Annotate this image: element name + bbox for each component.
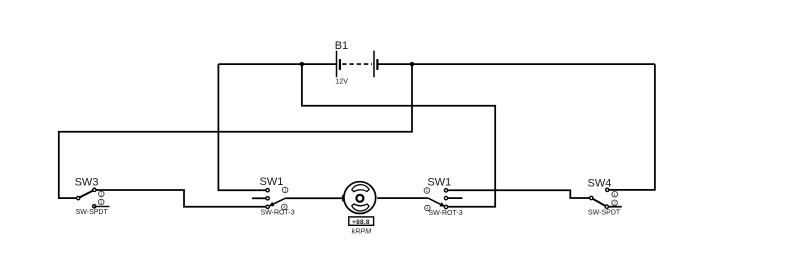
motor left pin tick bbox=[342, 195, 344, 202]
svg-text:SW4: SW4 bbox=[588, 177, 612, 189]
svg-text:+88.8: +88.8 bbox=[352, 219, 370, 226]
SW3 pin number 2 bbox=[98, 199, 104, 205]
SW4 throw1 terminal bbox=[606, 188, 609, 191]
SW1L pin number 1 bbox=[282, 187, 288, 193]
B1 dashed link bbox=[342, 63, 372, 65]
SW3 throw1 terminal bbox=[93, 188, 96, 191]
SW1R pin2 terminal bbox=[444, 196, 447, 199]
switch SW3 (SW-SPDT) bbox=[77, 188, 110, 208]
SW4 lever bbox=[591, 198, 607, 207]
wire rail-left down to SW1 left pin1 bbox=[218, 64, 266, 190]
svg-text:SW-SPDT: SW-SPDT bbox=[588, 209, 621, 216]
motor top brush arc bbox=[352, 185, 369, 192]
wire SW4 throw1 up to rail bbox=[608, 64, 655, 190]
svg-text:SW-SPDT: SW-SPDT bbox=[76, 209, 109, 216]
svg-text:SW3: SW3 bbox=[75, 176, 99, 188]
motor display box bbox=[349, 217, 374, 226]
wire right SW1 pin1 to SW4 common bbox=[446, 190, 590, 198]
SW4 pin number 2 bbox=[612, 200, 618, 206]
SW1L wiper arrowhead bbox=[269, 202, 275, 207]
wire junction B down, left, down to SW3 common bbox=[59, 64, 412, 198]
motor shaft circle bbox=[356, 195, 363, 202]
svg-text:SW1: SW1 bbox=[427, 177, 451, 189]
SW3 pin number 1 bbox=[99, 191, 105, 197]
SW1L pin3 terminal bbox=[266, 205, 269, 208]
SW1R pin number 4 bbox=[425, 205, 431, 211]
node junction B bbox=[410, 62, 414, 66]
wire top rail right (battery right lead) bbox=[377, 63, 655, 65]
B1 left long plate bbox=[336, 51, 338, 77]
node junction A bbox=[300, 62, 304, 66]
SW1R pin3 terminal bbox=[444, 205, 447, 208]
svg-text:SW-ROT-3: SW-ROT-3 bbox=[261, 209, 295, 216]
B1 right short plate bbox=[376, 59, 378, 70]
SW3 throw2 stub bbox=[94, 206, 109, 208]
svg-text:SW1: SW1 bbox=[260, 176, 284, 188]
wire left SW1 common to motor left pin bbox=[285, 197, 343, 199]
SW1L pin number 4 bbox=[282, 204, 288, 210]
wire stub SW4 throw2 bbox=[608, 206, 622, 208]
SW3 lever bbox=[78, 190, 94, 198]
motor bottom brush arc bbox=[352, 204, 369, 211]
svg-text:B1: B1 bbox=[335, 40, 348, 52]
motor body circle bbox=[344, 182, 376, 214]
wire junction A down and across to right SW1 pin3 bbox=[302, 64, 495, 207]
svg-text:SW-ROT-3: SW-ROT-3 bbox=[429, 210, 463, 217]
SW3 throw2 terminal bbox=[93, 205, 96, 208]
SW1R wiper bbox=[428, 198, 444, 206]
SW1L wiper bbox=[270, 198, 285, 205]
SW1L pin2 terminal bbox=[266, 197, 269, 200]
SW4 throw2 terminal bbox=[605, 205, 608, 208]
switch SW4 (SW-SPDT, thrown down) bbox=[590, 188, 618, 208]
battery B1 bbox=[337, 51, 378, 77]
SW1R pin number 1 bbox=[424, 188, 430, 194]
wire top rail left (battery left lead) bbox=[218, 63, 336, 65]
motor U1 bbox=[343, 182, 376, 214]
B1 left short plate bbox=[339, 59, 341, 70]
switch SW1 left (SW-ROT-3) bbox=[266, 187, 288, 210]
SW1R pin1 terminal bbox=[444, 189, 447, 192]
SW4 common terminal bbox=[590, 196, 593, 199]
SW3 common terminal bbox=[77, 196, 80, 199]
SW1L pin1 terminal bbox=[266, 189, 269, 192]
svg-text:kRPM: kRPM bbox=[352, 227, 372, 236]
switch SW1 right (SW-ROT-3, mirrored) bbox=[424, 188, 448, 211]
B1 right long plate bbox=[373, 51, 375, 77]
svg-text:12V: 12V bbox=[335, 77, 348, 86]
wire stub right SW1 pin2 bbox=[446, 197, 462, 199]
SW1R wiper arrowhead bbox=[439, 202, 445, 207]
wire SW3 throw1 to left SW1 pin3 bbox=[96, 190, 266, 207]
SW4 pin number 1 bbox=[612, 191, 618, 197]
wire motor right pin to right SW1 common bbox=[377, 197, 428, 199]
wire stub left SW1 pin2 bbox=[252, 197, 266, 199]
